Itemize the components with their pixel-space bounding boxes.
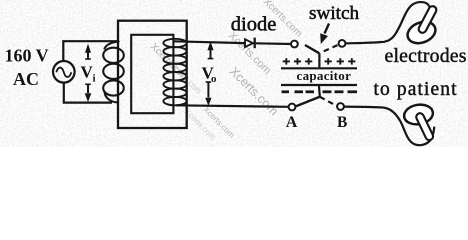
capacitor stem bottom	[318, 85, 321, 97]
wire to bottom electrode	[344, 107, 434, 146]
svg-text:diode: diode	[231, 14, 277, 36]
label Vo	[202, 63, 218, 84]
svg-text:A: A	[286, 114, 298, 131]
transformer T1 primary winding	[103, 42, 124, 103]
switch S2 alternate position dashed	[320, 97, 337, 106]
wire source bottom to primary	[64, 83, 112, 103]
capacitor stem top	[318, 53, 320, 67]
switch S2 blade	[296, 97, 320, 106]
svg-text:electrodes: electrodes	[385, 45, 467, 67]
switch S1 blade	[305, 45, 319, 53]
voltage arrows Vi	[85, 44, 92, 102]
capacitor C1 top plate	[281, 67, 357, 69]
label 160 V AC	[5, 46, 49, 90]
capacitor C1 bottom plate	[281, 84, 357, 86]
wire secondary bottom to node A	[176, 105, 289, 107]
svg-text:o: o	[211, 73, 217, 85]
electrode paddle bottom	[403, 102, 435, 136]
switch S1 alternate position dashed	[324, 45, 339, 51]
svg-text:B: B	[337, 114, 347, 131]
wire source top to primary	[63, 41, 119, 61]
switch S1 right terminal	[339, 40, 346, 47]
diode D1	[245, 38, 255, 49]
electrode paddle top	[404, 10, 438, 47]
negative charges	[282, 90, 358, 93]
wire to top electrode	[345, 2, 430, 43]
switch S1 left terminal	[291, 41, 298, 48]
svg-text:switch: switch	[309, 3, 360, 24]
transformer T1 core	[118, 21, 187, 128]
svg-text:capacitor: capacitor	[297, 68, 352, 83]
wire diode to switch	[256, 42, 291, 45]
node B	[337, 103, 344, 110]
svg-text:to patient: to patient	[374, 79, 458, 100]
switch pointer arrow	[320, 24, 329, 45]
wire secondary top to diode	[174, 41, 245, 43]
AC source V1	[53, 61, 75, 83]
transformer T1 secondary winding	[163, 39, 186, 106]
voltage arrows Vo	[205, 41, 213, 106]
svg-text:i: i	[93, 73, 96, 85]
positive charges	[283, 58, 356, 64]
svg-text:AC: AC	[13, 69, 39, 89]
svg-text:160 V: 160 V	[5, 46, 49, 66]
label electrodes to patient	[374, 45, 467, 100]
node A	[289, 104, 296, 111]
label Vi	[81, 62, 96, 84]
